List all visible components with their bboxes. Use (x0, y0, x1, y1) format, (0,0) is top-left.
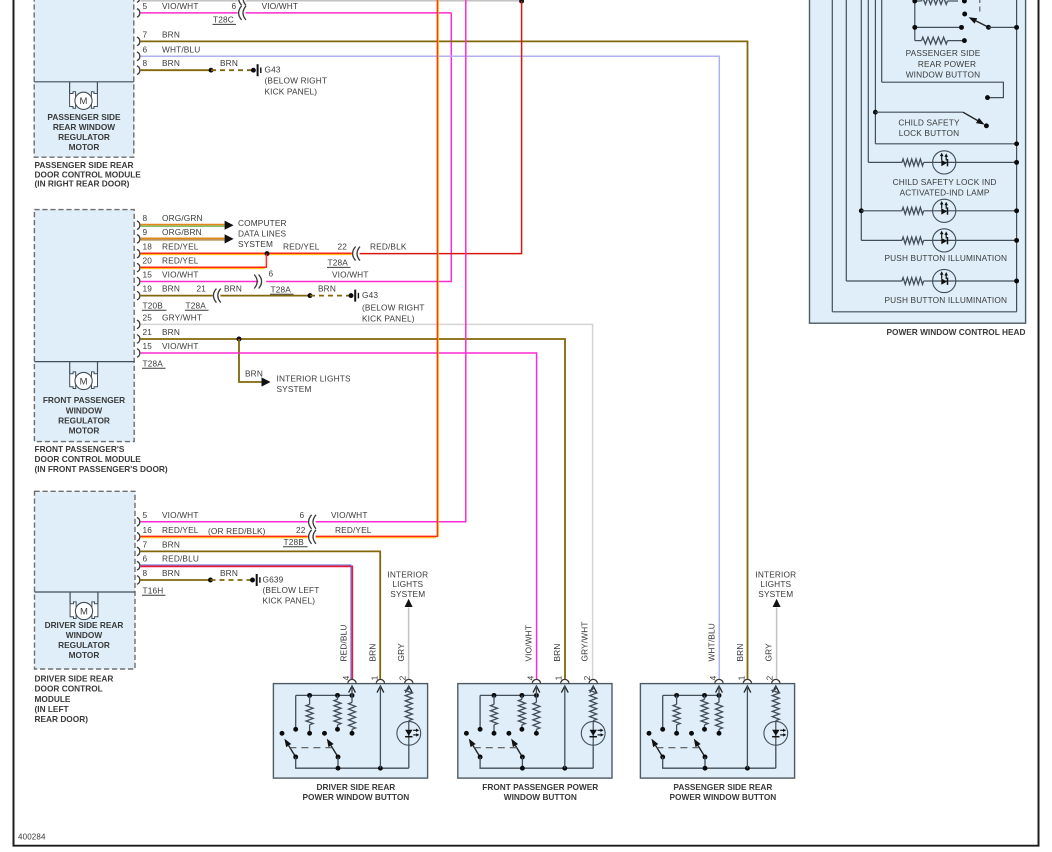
push button illumination lamp 2 (resistor + LED) (861, 229, 1019, 252)
wire VIO/WHT module1 pin5 to connector T28C (141, 12, 238, 14)
passenger side rear door control module label (35, 160, 142, 189)
labels pin8 row and G43 (143, 58, 328, 96)
button title (670, 782, 777, 802)
wire BRN module2 pin21 to front passenger button pin1 (141, 339, 565, 679)
labels T20B and T28A (142, 300, 209, 310)
svg-text:21: 21 (197, 284, 207, 294)
svg-text:POWER WINDOW CONTROL HEAD: POWER WINDOW CONTROL HEAD (886, 327, 1025, 337)
svg-text:(IN RIGHT REAR DOOR): (IN RIGHT REAR DOOR) (35, 179, 130, 189)
svg-text:T28A: T28A (186, 300, 207, 310)
svg-text:M: M (80, 606, 88, 617)
svg-text:DRIVER SIDE REAR: DRIVER SIDE REAR (316, 782, 395, 792)
labels pin5 row (143, 1, 299, 11)
connector T28A (6) (254, 275, 261, 289)
svg-text:(BELOW RIGHT: (BELOW RIGHT (265, 75, 328, 85)
label T28A (327, 258, 351, 268)
passenger side rear window regulator motor section line (34, 81, 134, 83)
motor M front passenger window regulator (70, 362, 98, 390)
svg-text:BRN: BRN (162, 284, 180, 294)
rotated wire name labels (706, 623, 773, 661)
svg-text:G43: G43 (362, 290, 378, 300)
svg-text:(IN LEFT: (IN LEFT (35, 704, 69, 714)
svg-text:15: 15 (143, 270, 153, 280)
svg-text:LIGHTS: LIGHTS (760, 579, 791, 589)
svg-text:8: 8 (143, 568, 148, 578)
push button illumination lamp 3 (resistor + LED) (846, 269, 1019, 292)
svg-text:T28A: T28A (328, 258, 349, 268)
svg-text:PUSH BUTTON ILLUMINATION: PUSH BUTTON ILLUMINATION (884, 295, 1007, 305)
svg-text:WINDOW BUTTON: WINDOW BUTTON (906, 70, 981, 80)
module3 pin 6 connector bump (137, 561, 140, 570)
labels pin8 ORG/GRN (143, 213, 203, 223)
pin bumps 4 1 2 (532, 679, 597, 683)
svg-text:KICK PANEL): KICK PANEL) (362, 313, 415, 323)
svg-text:POWER WINDOW BUTTON: POWER WINDOW BUTTON (303, 792, 410, 802)
push button illumination label (884, 253, 1007, 263)
svg-text:T28B: T28B (284, 537, 305, 547)
module2 pin 19 connector bump (137, 291, 140, 300)
module2 pin 15 connector bump (137, 277, 140, 286)
wire ORG/BRN module2 pin9 to computer data lines (141, 238, 225, 240)
svg-text:2: 2 (582, 675, 592, 680)
diagram number label (18, 833, 46, 842)
front passenger window regulator motor label (43, 395, 125, 435)
passenger side rear power window button (in control head) (912, 0, 1019, 44)
pin entry arrows (533, 686, 597, 693)
svg-text:BRN: BRN (245, 368, 263, 378)
module2 pin 8 connector bump (137, 221, 140, 230)
interior lights system feed (passenger rear button) (755, 570, 796, 679)
svg-text:MOTOR: MOTOR (69, 426, 100, 436)
module3 pin 7 connector bump (137, 547, 140, 556)
connector (6) (309, 515, 316, 529)
labels pin6 row (143, 44, 201, 54)
svg-text:SYSTEM: SYSTEM (277, 384, 312, 394)
svg-text:6: 6 (300, 510, 305, 520)
svg-text:1: 1 (554, 675, 564, 680)
window switch network (647, 686, 780, 771)
svg-text:REAR WINDOW: REAR WINDOW (53, 122, 115, 132)
rotated pin number labels (708, 675, 775, 680)
driver side rear window regulator motor section line (35, 591, 136, 593)
svg-text:SYSTEM: SYSTEM (758, 589, 793, 599)
svg-text:5: 5 (143, 510, 148, 520)
control head internal bus wires (832, 0, 1016, 312)
label T28A (270, 284, 294, 294)
wire VIO/WHT vertical to module2 pin15 row (266, 13, 451, 282)
svg-text:WINDOW: WINDOW (66, 630, 103, 640)
labels pin7 row (143, 539, 180, 549)
svg-text:RED/YEL: RED/YEL (162, 256, 199, 266)
wire WHT/BLU module1 pin6 to passenger rear button pin4 (141, 56, 720, 679)
svg-text:G639: G639 (263, 574, 284, 584)
svg-text:VIO/WHT: VIO/WHT (262, 1, 299, 11)
ground G43 (below right kick panel) (251, 64, 261, 76)
wire BRN module3 pin8 solid segment (141, 579, 211, 581)
svg-text:WINDOW: WINDOW (66, 405, 103, 415)
svg-text:T28C: T28C (213, 15, 234, 25)
wire VIO/WHT module2 pin15 to connector T28A (141, 281, 259, 283)
svg-text:PASSENGER SIDE: PASSENGER SIDE (906, 48, 981, 58)
driver side rear window regulator motor label (45, 620, 124, 660)
module1 pin 5 connector bump (137, 9, 140, 18)
svg-text:ORG/GRN: ORG/GRN (162, 213, 203, 223)
interior lights system feed (driver rear button) (387, 570, 428, 679)
svg-text:REAR DOOR): REAR DOOR) (35, 714, 89, 724)
svg-text:BRN: BRN (368, 644, 378, 662)
wire ORG/GRN module2 pin8 to computer data lines (141, 225, 225, 227)
labels pin18 row (143, 242, 407, 252)
svg-text:COMPUTER: COMPUTER (238, 218, 287, 228)
svg-text:VIO/WHT: VIO/WHT (162, 270, 199, 280)
svg-text:FRONT PASSENGER: FRONT PASSENGER (43, 395, 125, 405)
svg-text:WINDOW BUTTON: WINDOW BUTTON (504, 792, 577, 802)
svg-text:M: M (80, 376, 88, 387)
svg-text:22: 22 (338, 242, 348, 252)
svg-text:1: 1 (736, 675, 746, 680)
svg-text:RED/BLK: RED/BLK (370, 242, 407, 252)
svg-text:BRN: BRN (735, 644, 745, 662)
svg-text:20: 20 (143, 256, 153, 266)
module2 pin 25 connector bump (137, 320, 140, 329)
wire GRY/WHT module2 pin25 to front passenger button pin2 (141, 324, 593, 679)
svg-text:(IN FRONT PASSENGER'S DOOR): (IN FRONT PASSENGER'S DOOR) (35, 464, 168, 474)
arrow to computer data lines system (225, 221, 234, 230)
svg-text:FRONT PASSENGER POWER: FRONT PASSENGER POWER (482, 782, 598, 792)
passenger side rear door control module box (34, 0, 134, 157)
svg-text:REGULATOR: REGULATOR (58, 415, 110, 425)
wire BRN dashed to ground (211, 579, 253, 581)
splice node (208, 578, 213, 583)
svg-text:WHT/BLU: WHT/BLU (706, 623, 716, 661)
svg-text:SYSTEM: SYSTEM (238, 239, 273, 249)
connector T28C (239, 6, 246, 20)
svg-text:6: 6 (143, 44, 148, 54)
svg-text:BRN: BRN (220, 568, 238, 578)
svg-text:GRY: GRY (764, 643, 774, 662)
motor M driver side rear window regulator (70, 592, 98, 620)
LED illumination lamp (397, 721, 421, 768)
wire BRN dashed segment to ground (211, 69, 253, 71)
svg-text:VIO/WHT: VIO/WHT (524, 625, 534, 662)
svg-text:VIO/WHT: VIO/WHT (332, 270, 369, 280)
labels pin6 row (143, 554, 200, 564)
label T16H (142, 585, 166, 595)
svg-text:REGULATOR: REGULATOR (58, 132, 110, 142)
push button illumination lamp 1 (resistor + LED) (859, 199, 1019, 222)
svg-text:15: 15 (143, 341, 153, 351)
svg-text:ACTIVATED-IND LAMP: ACTIVATED-IND LAMP (900, 187, 990, 197)
push button illumination label (884, 295, 1007, 305)
svg-text:PUSH BUTTON ILLUMINATION: PUSH BUTTON ILLUMINATION (884, 253, 1007, 263)
svg-text:9: 9 (143, 227, 148, 237)
splice node (308, 293, 313, 298)
svg-text:GRY/WHT: GRY/WHT (580, 621, 590, 661)
wire GRY top row (cut off) (141, 0, 522, 2)
power window control head box (810, 0, 1026, 323)
ground G43 (below right kick panel) (349, 290, 359, 302)
label T28C (213, 15, 237, 25)
wire BRN dashed to ground (310, 295, 351, 297)
wire RED/YEL module3 pin16 to connector T28B (141, 536, 308, 537)
module2 pin 21 connector bump (137, 335, 140, 344)
svg-text:BRN: BRN (318, 284, 336, 294)
svg-text:VIO/WHT: VIO/WHT (162, 1, 199, 11)
child safety lock ind label (893, 177, 997, 197)
svg-text:REGULATOR: REGULATOR (58, 640, 110, 650)
svg-text:T28A: T28A (271, 284, 292, 294)
svg-text:6: 6 (143, 554, 148, 564)
labels pin5 row (143, 510, 368, 520)
labels pin7 row (143, 29, 180, 39)
rotated wire name labels (339, 624, 407, 661)
svg-text:18: 18 (143, 242, 153, 252)
splice node (209, 68, 214, 73)
svg-text:4: 4 (708, 675, 718, 680)
svg-text:SYSTEM: SYSTEM (390, 589, 425, 599)
svg-text:WHT/BLU: WHT/BLU (162, 44, 200, 54)
svg-text:LOCK BUTTON: LOCK BUTTON (899, 128, 960, 138)
svg-text:1: 1 (369, 675, 379, 680)
module1 pin 6 connector bump (137, 52, 140, 61)
svg-text:T28A: T28A (143, 358, 164, 368)
svg-text:DRIVER SIDE REAR: DRIVER SIDE REAR (45, 620, 124, 630)
wire BRN branch to interior lights system (239, 339, 262, 382)
module3 pin 16 connector bump (137, 533, 140, 542)
front passenger window regulator motor section line (34, 361, 134, 363)
wire VIO/WHT to top (cut) (316, 0, 466, 522)
pin bumps 4 1 2 (348, 679, 413, 683)
splice node (237, 337, 242, 342)
labels pin19 row (143, 284, 425, 324)
svg-text:19: 19 (143, 284, 153, 294)
svg-text:22: 22 (296, 525, 306, 535)
svg-text:BRN: BRN (224, 284, 242, 294)
connector T28A (22) (353, 247, 360, 261)
svg-text:BRN: BRN (220, 58, 238, 68)
svg-text:KICK PANEL): KICK PANEL) (265, 86, 318, 96)
module2 pin 9 connector bump (137, 235, 140, 244)
module2 pin 18 connector bump (137, 249, 140, 258)
svg-text:BRN: BRN (162, 568, 180, 578)
connector T28B (22) (309, 530, 316, 544)
front passenger door control module box (34, 210, 134, 442)
labels pin8 row and G639 (143, 568, 320, 605)
power window button box: DRIVER SIDE REAR (273, 684, 427, 779)
svg-text:8: 8 (143, 213, 148, 223)
rotated pin number labels (341, 675, 408, 680)
wire BRN module1 pin8 solid segment (141, 69, 211, 71)
module2 pin 20 connector bump (137, 263, 140, 272)
module3 pin 8 connector bump (137, 576, 140, 585)
labels pin21 row and interior lights (143, 327, 351, 394)
window switch network (280, 686, 413, 771)
module1 pin 7 connector bump (137, 37, 140, 46)
svg-text:4: 4 (525, 675, 535, 680)
rotated pin number labels (525, 675, 592, 680)
svg-text:KICK PANEL): KICK PANEL) (263, 595, 316, 605)
wire VIO/WHT from T28C to corner (246, 12, 452, 14)
arrow to interior lights system (262, 377, 271, 386)
svg-text:DOOR CONTROL MODULE: DOOR CONTROL MODULE (35, 454, 142, 464)
svg-text:2: 2 (765, 675, 775, 680)
svg-text:G43: G43 (265, 65, 281, 75)
ground G639 (below left kick panel) (250, 574, 260, 586)
wire BRN from T28A solid then splice (220, 295, 310, 297)
svg-text:INTERIOR: INTERIOR (387, 570, 428, 580)
svg-text:DOOR CONTROL: DOOR CONTROL (35, 684, 103, 694)
module3 pin 5 connector bump (137, 518, 140, 527)
svg-text:FRONT PASSENGER'S: FRONT PASSENGER'S (35, 444, 125, 454)
svg-text:MOTOR: MOTOR (69, 650, 100, 660)
svg-text:BRN: BRN (162, 327, 180, 337)
svg-text:PASSENGER SIDE: PASSENGER SIDE (47, 112, 121, 122)
wire RED/YEL module2 pin18 to connector T28A (141, 253, 352, 254)
svg-text:MODULE: MODULE (35, 694, 71, 704)
child safety lock button label (898, 117, 960, 137)
svg-text:400284: 400284 (18, 833, 46, 842)
svg-text:PASSENGER SIDE REAR: PASSENGER SIDE REAR (673, 782, 772, 792)
wire BRN module2 pin19 to connector T28A (141, 295, 213, 297)
labels pin16 row (143, 525, 372, 536)
svg-text:CHILD SAFETY: CHILD SAFETY (898, 117, 960, 127)
svg-text:7: 7 (143, 29, 148, 39)
labels pin25 row (143, 312, 203, 322)
svg-text:16: 16 (143, 525, 153, 535)
LED illumination lamp (581, 721, 605, 768)
passenger side rear power window button label (906, 48, 981, 79)
labels pin15 lower row (143, 341, 199, 351)
pin entry arrows (716, 686, 780, 693)
svg-text:4: 4 (341, 675, 351, 680)
svg-text:GRY/WHT: GRY/WHT (162, 312, 202, 322)
svg-text:(BELOW LEFT: (BELOW LEFT (263, 585, 320, 595)
svg-text:6: 6 (232, 1, 237, 11)
junction node at top of RED/BLK vertical (519, 0, 524, 4)
svg-text:T16H: T16H (143, 585, 164, 595)
control head label (886, 327, 1025, 337)
svg-text:LIGHTS: LIGHTS (392, 579, 423, 589)
wire RED/YEL to top (cut) (316, 0, 439, 538)
svg-text:BRN: BRN (162, 29, 180, 39)
labels pin15 row (143, 268, 369, 279)
wire RED/YEL module2 pin20 joining pin18 (141, 254, 267, 269)
rotated wire name labels (524, 621, 590, 661)
svg-text:GRY: GRY (396, 643, 406, 662)
wire VIO/WHT module2 pin15 to front passenger button pin4 (141, 353, 537, 679)
svg-text:BRN: BRN (162, 539, 180, 549)
svg-text:BRN: BRN (162, 58, 180, 68)
svg-text:6: 6 (269, 268, 274, 278)
child safety lock button switch (873, 110, 989, 129)
svg-text:RED/YEL: RED/YEL (283, 242, 320, 252)
svg-text:DRIVER SIDE REAR: DRIVER SIDE REAR (35, 673, 114, 683)
svg-text:MOTOR: MOTOR (69, 142, 100, 152)
svg-text:RED/YEL: RED/YEL (162, 242, 199, 252)
svg-text:INTERIOR: INTERIOR (755, 570, 796, 580)
module2 pin 15 lower connector bump (137, 349, 140, 358)
computer data lines system label (238, 218, 287, 249)
svg-text:RED/YEL: RED/YEL (335, 525, 372, 535)
passenger side rear window regulator motor label (47, 112, 121, 152)
arrow to computer data lines system (225, 234, 234, 243)
wire BRN module3 pin7 to driver rear button pin1 (141, 551, 381, 679)
svg-text:(BELOW RIGHT: (BELOW RIGHT (362, 302, 425, 312)
splice node pins18/20 (265, 251, 270, 256)
svg-text:21: 21 (143, 327, 153, 337)
wire RED/BLK from T28A up to top junction (360, 1, 522, 253)
child safety lock ind activated-ind lamp (resistor + LED) (868, 151, 1019, 174)
svg-text:M: M (80, 96, 88, 107)
power window button box: FRONT PASSENGER POWER (458, 684, 612, 779)
motor M passenger side rear window regulator (70, 82, 98, 110)
svg-text:POWER WINDOW BUTTON: POWER WINDOW BUTTON (670, 792, 777, 802)
connector on grey top row (partial) (137, 0, 246, 5)
svg-text:(OR RED/BLK): (OR RED/BLK) (208, 526, 266, 536)
svg-text:2: 2 (398, 675, 408, 680)
svg-text:VIO/WHT: VIO/WHT (162, 510, 199, 520)
svg-text:BRN: BRN (552, 644, 562, 662)
wire BRN module1 pin7 to passenger rear button pin1 (141, 41, 748, 679)
svg-text:7: 7 (143, 539, 148, 549)
LED illumination lamp (764, 721, 788, 768)
svg-text:VIO/WHT: VIO/WHT (162, 341, 199, 351)
module1 pin 8 connector bump (137, 66, 140, 75)
svg-text:VIO/WHT: VIO/WHT (331, 510, 368, 520)
svg-text:CHILD SAFETY LOCK IND: CHILD SAFETY LOCK IND (893, 177, 997, 187)
label T28B (283, 537, 308, 547)
svg-text:5: 5 (143, 1, 148, 11)
svg-text:RED/BLU: RED/BLU (162, 554, 199, 564)
front passenger door control module label (35, 444, 168, 474)
driver side rear door control module label (35, 673, 114, 724)
svg-text:T20B: T20B (143, 300, 164, 310)
labels pin9 ORG/BRN (143, 227, 202, 237)
svg-text:ORG/BRN: ORG/BRN (162, 227, 202, 237)
pin entry arrows (349, 686, 413, 693)
svg-text:8: 8 (143, 58, 148, 68)
wire from child safety branch to right bus (875, 141, 1019, 146)
window switch network (464, 686, 597, 771)
button title (303, 782, 410, 802)
svg-text:RED/YEL: RED/YEL (162, 525, 199, 535)
svg-text:INTERIOR LIGHTS: INTERIOR LIGHTS (277, 374, 351, 384)
driver side rear door control module box (35, 491, 136, 669)
label T28A (142, 358, 166, 368)
svg-text:DATA LINES: DATA LINES (238, 229, 287, 239)
labels pin20 row (143, 256, 199, 266)
svg-text:REAR POWER: REAR POWER (918, 59, 976, 69)
button title (482, 782, 598, 802)
svg-text:25: 25 (143, 312, 153, 322)
svg-text:RED/BLU: RED/BLU (339, 624, 349, 661)
wire VIO/WHT module3 pin5 to connector (141, 521, 308, 523)
power window button box: PASSENGER SIDE REAR (640, 684, 794, 779)
connector T28A (21) (213, 289, 220, 303)
wire RED/BLU module3 pin6 to driver rear button pin4 (141, 565, 353, 679)
step wire from bus to child safety contact (882, 82, 1004, 100)
pin bumps 4 1 2 (715, 679, 780, 683)
